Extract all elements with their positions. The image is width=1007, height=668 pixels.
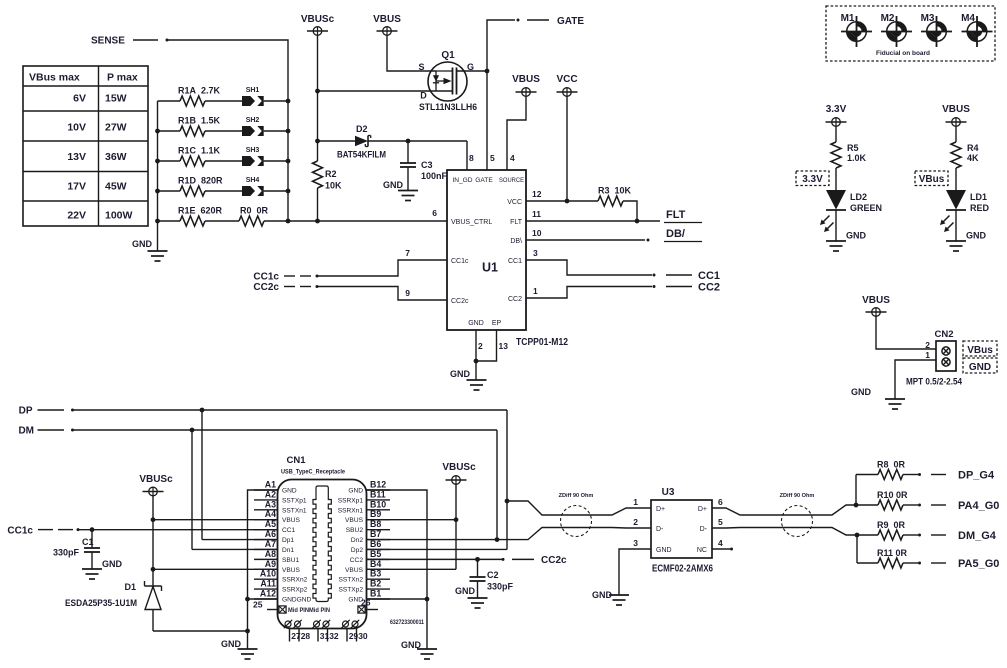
wire VBUS to U1 pin4 SOURCE	[507, 96, 526, 170]
svg-text:VBUS: VBUS	[512, 74, 540, 85]
svg-text:GND: GND	[450, 369, 471, 379]
terminal 3.3V	[826, 118, 847, 127]
wire C3 bottom	[407, 167, 409, 191]
label VBus CN2 box	[967, 345, 993, 356]
wire B5 CC2	[367, 558, 478, 560]
wire C2 bottom	[477, 581, 479, 598]
resistor R1B	[180, 126, 205, 136]
pin label A5	[265, 519, 276, 529]
wire CC1c dash2	[300, 275, 311, 277]
table cell 17V	[67, 181, 86, 193]
wire pin B4 stub	[367, 568, 391, 570]
fiducial M4	[962, 16, 993, 47]
svg-text:R1B 1.5K: R1B 1.5K	[178, 116, 221, 126]
solder bridge SH4	[242, 186, 264, 196]
svg-text:FLT: FLT	[510, 219, 523, 226]
junction right rail bottom	[286, 219, 291, 224]
net label VBUS mid	[512, 74, 540, 85]
label R2	[325, 169, 337, 179]
svg-text:STL11N3LLH6: STL11N3LLH6	[419, 102, 477, 113]
wire B12 GND to right rail	[367, 490, 428, 649]
pin number 12	[532, 189, 542, 199]
wire VCC down to pin12 net	[566, 96, 568, 201]
junction VCC / R3	[565, 199, 570, 204]
junction VBUSc / Q1 drain	[315, 89, 320, 94]
label Q1 part STL11N3LLH6	[419, 102, 477, 113]
wire to R9	[857, 534, 878, 536]
terminal VBUSc right	[446, 476, 467, 485]
wire pin A11 stub	[254, 588, 278, 590]
resistor R10	[878, 500, 903, 510]
mid pin 26 contact	[358, 606, 365, 613]
svg-text:P max: P max	[107, 72, 138, 84]
wire end CC2	[653, 285, 656, 288]
ground C3	[398, 191, 418, 201]
svg-text:D+: D+	[656, 506, 665, 513]
wire CC2c to U1 pin9	[317, 287, 447, 301]
wire left rail to R1A	[158, 100, 181, 102]
pin name SSRXn1 B10	[338, 507, 364, 514]
wire C3 top	[407, 141, 409, 163]
pin number 10	[532, 228, 542, 238]
wire A12 to rail	[248, 598, 278, 600]
junction DM / Dn2 / diff	[495, 537, 500, 542]
svg-text:2: 2	[633, 517, 638, 527]
junction SH1 right rail	[286, 99, 291, 104]
wire R0 to U1 pin6 VBUS_CTRL	[264, 220, 447, 222]
svg-text:10K: 10K	[325, 181, 342, 191]
svg-text:CC2: CC2	[698, 282, 720, 294]
wire shield pin 30 tick	[356, 629, 358, 642]
label R1D 820R	[178, 176, 223, 186]
wire U1 pin11 FLT	[526, 220, 660, 222]
impedance note ZDiff 90 Ohm left	[559, 493, 594, 537]
wire U1 GND stub	[475, 330, 477, 380]
junction left rail	[155, 159, 160, 164]
terminal VBUS top	[377, 27, 398, 36]
wire left rail to R1B	[158, 130, 181, 132]
svg-text:SBU2: SBU2	[346, 527, 364, 534]
wire to R11	[857, 562, 878, 564]
wire VBUS to R4	[955, 126, 957, 142]
label GND CN1 left	[221, 639, 242, 649]
svg-text:VBus: VBus	[919, 174, 945, 185]
net label FLT	[664, 209, 702, 223]
CN2 pin 1 contact	[942, 358, 950, 366]
svg-text:R11 0R: R11 0R	[877, 548, 908, 558]
svg-text:R10 0R: R10 0R	[877, 490, 908, 500]
svg-text:32: 32	[329, 631, 339, 641]
label C1 value 330pF	[53, 548, 80, 558]
svg-text:GATE: GATE	[557, 16, 584, 27]
svg-text:B2: B2	[370, 579, 381, 589]
label Q1 pin S	[418, 62, 424, 72]
solder bridge SH2	[242, 126, 264, 136]
pin number 26	[361, 598, 371, 608]
label GND C2	[455, 586, 476, 596]
ground C2	[468, 598, 488, 608]
resistor R9	[878, 530, 903, 540]
pin number 13	[499, 341, 509, 351]
svg-text:SH2: SH2	[246, 117, 260, 124]
svg-text:VBUS: VBUS	[345, 517, 364, 524]
svg-text:15W: 15W	[105, 93, 127, 105]
svg-text:R5: R5	[847, 143, 859, 153]
wire pin A4 stub	[254, 519, 278, 521]
label R3 10K	[598, 186, 632, 196]
svg-text:NC: NC	[697, 547, 707, 554]
impedance note ZDiff 90 Ohm right	[780, 493, 815, 537]
wire end CC2c	[502, 558, 505, 561]
wire ladder left rail	[157, 101, 159, 251]
svg-text:CC2c: CC2c	[253, 282, 279, 293]
terminal VCC	[557, 88, 578, 97]
label D2 part BAT54KFILM	[337, 150, 386, 160]
label CN1	[286, 455, 306, 466]
wire CC2 dash	[666, 286, 692, 288]
pin name DB	[510, 238, 522, 245]
wire pin A7 stub	[254, 548, 278, 550]
pin name VBUS A4	[282, 517, 301, 524]
label U1	[482, 261, 498, 275]
wire diff D+ out of U3	[712, 505, 856, 515]
label GND U3	[592, 590, 613, 600]
table cell 22V	[67, 210, 86, 222]
pin name VCC	[507, 199, 522, 206]
pin name D+ U3 right	[698, 506, 707, 513]
svg-text:GND: GND	[348, 488, 363, 495]
svg-text:USB_TypeC_Receptacle: USB_TypeC_Receptacle	[281, 469, 345, 476]
svg-text:10V: 10V	[67, 122, 86, 134]
wire end GATE	[517, 19, 520, 22]
label R1E 620R	[178, 206, 223, 216]
label Q1 pin D	[420, 91, 427, 101]
svg-text:B1: B1	[370, 589, 381, 599]
svg-text:4: 4	[718, 538, 723, 548]
pin label B7	[370, 529, 381, 539]
pin name VBUS B4	[345, 567, 364, 574]
svg-text:12: 12	[532, 189, 542, 199]
svg-text:1.0K: 1.0K	[847, 153, 867, 163]
wire DP down to Dp1	[201, 410, 203, 540]
wire start DP	[71, 409, 74, 412]
dashed box VBus CN2	[963, 341, 997, 356]
wire U1 pin1 CC2	[526, 287, 652, 299]
svg-text:17V: 17V	[67, 181, 86, 193]
wire start CC2c	[316, 285, 319, 288]
label USB_TypeC_Receptacle	[281, 469, 345, 476]
pin name SSTXp1 A2	[282, 497, 307, 504]
svg-text:6: 6	[718, 497, 723, 507]
wire R9 out	[903, 534, 918, 536]
wire A4 VBUS	[153, 519, 278, 521]
svg-text:D-: D-	[656, 526, 664, 533]
junction U1 GND/EP	[474, 359, 479, 364]
table cell 100W	[105, 210, 133, 222]
svg-text:45W: 45W	[105, 181, 127, 193]
label R10 0R	[877, 490, 908, 500]
svg-text:GND: GND	[592, 590, 613, 600]
pin number 6	[432, 208, 437, 218]
svg-text:7: 7	[405, 248, 410, 258]
label GND CN2 box	[969, 362, 991, 373]
pin name GND A1	[282, 488, 297, 495]
wire R1E to R0	[205, 220, 239, 222]
fiducial label M3	[921, 13, 935, 24]
junction B1 / right rail	[425, 597, 430, 602]
svg-text:CC2: CC2	[350, 557, 364, 564]
svg-text:A11: A11	[260, 579, 276, 589]
junction R2 bottom	[315, 219, 320, 224]
LED LD1 emission arrows	[940, 216, 954, 233]
label LD2	[850, 192, 867, 202]
svg-text:IN_GD: IN_GD	[452, 177, 472, 184]
wire shield pin 32 tick	[327, 629, 329, 642]
pin name CC2c pin9	[451, 298, 469, 305]
svg-text:GND: GND	[966, 231, 987, 241]
capacitor C1	[84, 548, 100, 552]
shield pin 31 contact	[312, 620, 320, 628]
svg-text:SSRXn2: SSRXn2	[282, 577, 308, 584]
svg-text:R1D 820R: R1D 820R	[178, 176, 223, 186]
wire DP dash	[38, 409, 65, 411]
pin label A4	[265, 509, 276, 519]
pin label B4	[370, 559, 381, 569]
svg-text:GATE: GATE	[475, 177, 493, 184]
net label DM	[18, 426, 34, 437]
svg-text:30: 30	[358, 631, 368, 641]
svg-text:9: 9	[405, 288, 410, 298]
wire VBUSc right down	[455, 484, 457, 569]
svg-text:GND: GND	[851, 387, 872, 397]
svg-text:R4: R4	[967, 143, 979, 153]
label R1B 1.5K	[178, 116, 221, 126]
svg-text:B7: B7	[370, 529, 381, 539]
svg-text:4: 4	[510, 153, 515, 163]
svg-text:A4: A4	[265, 509, 276, 519]
junction D1 / left rail	[245, 629, 250, 634]
pin label A6	[265, 529, 276, 539]
ground U1	[467, 380, 487, 390]
wire R2 top	[317, 141, 319, 161]
svg-text:GND: GND	[455, 586, 476, 596]
svg-text:B5: B5	[370, 549, 381, 559]
svg-text:GND: GND	[969, 362, 991, 373]
svg-text:VCC: VCC	[507, 199, 522, 206]
wire R1A to SH1	[205, 100, 242, 102]
pin number 32	[329, 631, 339, 641]
net label CC2c	[253, 282, 279, 293]
wire U1 pin12 VCC to R3	[526, 200, 598, 202]
svg-text:SSTXn1: SSTXn1	[282, 507, 307, 514]
svg-text:VBUS: VBUS	[282, 567, 301, 574]
wire CC1c dash2	[58, 529, 73, 531]
wire SH4 to right rail	[264, 190, 288, 192]
wire Dn1 to DM	[192, 548, 278, 550]
dashed box 3.3V	[796, 171, 829, 186]
resistor R8	[878, 470, 903, 480]
wire pin B3 stub	[367, 578, 391, 580]
dashed box GND CN2	[963, 358, 997, 373]
wire DP down to Dp2	[506, 410, 508, 550]
svg-text:B8: B8	[370, 519, 381, 529]
svg-text:13V: 13V	[67, 151, 86, 163]
ground C1	[82, 569, 102, 579]
wire A9 VBUS	[153, 568, 278, 570]
wire pin B11 stub	[367, 499, 391, 501]
svg-text:Q1: Q1	[441, 50, 455, 61]
svg-text:SSTXp2: SSTXp2	[338, 587, 363, 594]
pin number 1 CN2	[925, 350, 930, 360]
pin label B2	[370, 579, 381, 589]
svg-text:25: 25	[253, 600, 263, 610]
pin number 28	[301, 631, 311, 641]
svg-text:A1: A1	[265, 480, 276, 490]
pin name CC1c pin7	[451, 258, 469, 265]
wire CC2c dash1	[284, 286, 295, 288]
label GND CN1 right	[401, 640, 422, 650]
pin number 9	[405, 288, 410, 298]
net label VBUSc right	[442, 462, 476, 473]
wire SENSE dash	[133, 39, 158, 41]
table header P max	[107, 72, 138, 84]
terminal VBUSc top	[307, 27, 328, 36]
wire gate node to GATE / U1 pin5	[487, 20, 515, 170]
wire pin B5 stub	[367, 558, 391, 560]
wire VBUSc to D2 anode	[318, 140, 356, 142]
label Fiducial on board	[876, 50, 930, 57]
svg-text:DP_G4: DP_G4	[958, 470, 995, 482]
svg-text:GND: GND	[656, 547, 672, 554]
wire R2 bottom	[317, 188, 319, 221]
net label CC1	[698, 270, 720, 282]
junction R3 / FLT	[635, 219, 640, 224]
net label VBUSc left	[139, 474, 173, 485]
label R5	[847, 143, 859, 153]
svg-text:CC1c: CC1c	[253, 272, 279, 283]
svg-text:G: G	[467, 62, 474, 72]
pin label A1	[265, 480, 276, 490]
fiducial M3	[921, 16, 952, 47]
pin label B8	[370, 519, 381, 529]
fiducial label M2	[881, 13, 895, 24]
wire to R10	[856, 504, 878, 506]
svg-text:A7: A7	[265, 539, 276, 549]
LED LD2 emission arrows	[820, 216, 834, 233]
svg-text:R9 0R: R9 0R	[877, 520, 906, 530]
label C1	[82, 537, 94, 547]
table cell 13V	[67, 151, 86, 163]
svg-text:D-: D-	[700, 526, 708, 533]
svg-text:DM: DM	[18, 426, 34, 437]
wire start CC1c	[316, 275, 319, 278]
label 3.3V box	[802, 174, 823, 185]
label C3 value 100nF	[421, 171, 448, 181]
svg-text:LD2: LD2	[850, 192, 867, 202]
pin name GATE	[475, 177, 493, 184]
label U1 part TCPP01-M12	[516, 337, 568, 348]
resistor R4	[951, 142, 961, 168]
pin number 29	[349, 631, 359, 641]
svg-text:VCC: VCC	[556, 74, 577, 85]
svg-text:B9: B9	[370, 509, 381, 519]
pin label A11	[260, 579, 276, 589]
terminal VBUS mid	[516, 88, 537, 97]
wire B1 to rail	[367, 598, 428, 600]
wire Dp1 to DP	[202, 539, 278, 541]
wire DP_G4 dash	[931, 474, 946, 476]
wire end NC	[730, 548, 733, 551]
label GND LD1	[966, 231, 987, 241]
wire 3.3V to R5	[835, 126, 837, 142]
svg-text:B11: B11	[370, 489, 386, 499]
net label VCC	[556, 74, 577, 85]
table cell 27W	[105, 122, 127, 134]
label R4 value 4K	[967, 153, 979, 163]
label D1 part ESDA25P35-1U1M	[65, 598, 137, 608]
pin name VBUS_CTRL	[451, 219, 492, 226]
wire U1 pin8 stub	[466, 141, 468, 170]
svg-text:CC2c: CC2c	[541, 555, 567, 566]
capacitor C2	[470, 577, 486, 581]
wire R1D to SH4	[205, 190, 242, 192]
wire SENSE to SH rail	[167, 40, 288, 221]
svg-text:GND: GND	[282, 488, 297, 495]
pin name Dn2 B7	[351, 537, 363, 544]
svg-text:VBUS: VBUS	[942, 104, 970, 115]
ground ladder	[148, 251, 168, 261]
wire pin A9 stub	[254, 568, 278, 570]
pin label A2	[265, 489, 276, 499]
svg-text:C3: C3	[421, 160, 433, 170]
label GND C1	[102, 559, 123, 569]
label LD2 GREEN	[850, 203, 882, 213]
label R1A 2.7K	[178, 86, 221, 96]
wire diff pair D- to U3 pin2	[497, 528, 651, 540]
svg-text:8: 8	[469, 153, 474, 163]
connector CN1 USB_TypeC_Receptacle body	[278, 480, 367, 629]
junction D2 / C3	[406, 139, 411, 144]
svg-text:13: 13	[499, 341, 509, 351]
svg-text:GND: GND	[383, 180, 404, 190]
label R11 0R	[877, 548, 908, 558]
svg-text:22V: 22V	[67, 210, 86, 222]
pin name GND U1	[468, 320, 484, 327]
svg-text:R8 0R: R8 0R	[877, 460, 906, 470]
junction C1 / CC1c	[90, 527, 95, 532]
pin number 3 U3	[633, 538, 638, 548]
svg-text:VBus max: VBus max	[29, 72, 80, 84]
resistor R1A	[180, 96, 205, 106]
wire end R8	[918, 473, 921, 476]
label R0 0R	[240, 206, 269, 216]
svg-text:632723300011: 632723300011	[390, 620, 425, 626]
pin label B6	[370, 539, 381, 549]
pin number 1 U3	[633, 497, 638, 507]
svg-text:R3 10K: R3 10K	[598, 186, 632, 196]
svg-text:27W: 27W	[105, 122, 127, 134]
CN1 connector tongue	[313, 486, 331, 602]
wire U1 EP stub	[476, 330, 497, 361]
svg-text:CC2c: CC2c	[451, 298, 469, 305]
net label DM_G4	[958, 530, 997, 542]
label GND ladder	[132, 239, 153, 249]
wire D1 bottom	[152, 609, 154, 631]
pin label A12	[260, 589, 276, 599]
pin name IN_GD	[452, 177, 472, 184]
wire VBUS to CN2 pin2	[876, 316, 936, 349]
wire pin B9 stub	[367, 519, 391, 521]
